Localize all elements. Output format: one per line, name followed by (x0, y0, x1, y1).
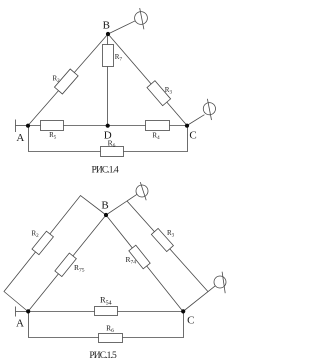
svg-text:РИС.1.4: РИС.1.4 (91, 165, 119, 175)
svg-text:B: B (101, 200, 108, 212)
svg-text:A: A (16, 317, 24, 329)
svg-text:B: B (103, 20, 110, 32)
svg-text:РИС.1.5: РИС.1.5 (89, 351, 117, 361)
svg-text:C: C (189, 130, 196, 142)
svg-text:A: A (16, 132, 24, 144)
svg-text:C: C (187, 315, 194, 327)
